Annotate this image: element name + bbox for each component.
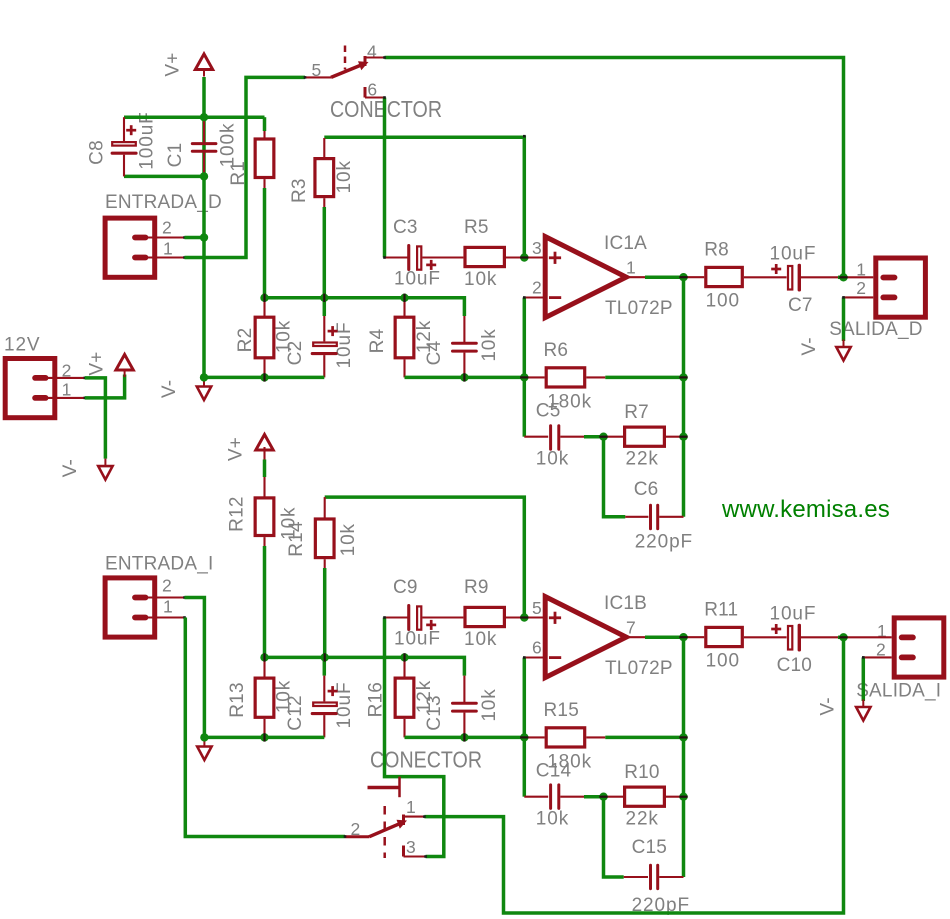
svg-text:R7: R7 — [624, 402, 649, 423]
svg-text:10uF: 10uF — [770, 244, 817, 265]
svg-text:6: 6 — [532, 638, 542, 658]
svg-text:2: 2 — [532, 278, 542, 298]
svg-text:R6: R6 — [544, 340, 569, 361]
svg-text:100: 100 — [706, 651, 740, 672]
svg-text:C2: C2 — [285, 341, 306, 366]
svg-text:R9: R9 — [464, 577, 489, 598]
svg-text:V+: V+ — [87, 351, 108, 375]
svg-text:V-: V- — [159, 380, 180, 398]
svg-text:100uF: 100uF — [137, 111, 158, 169]
svg-text:C12: C12 — [285, 695, 306, 730]
svg-text:R11: R11 — [704, 600, 738, 621]
svg-text:C6: C6 — [634, 479, 659, 500]
svg-text:10uF: 10uF — [770, 604, 817, 625]
svg-text:10k: 10k — [536, 449, 569, 470]
svg-text:C5: C5 — [536, 401, 561, 422]
svg-text:C3: C3 — [393, 217, 418, 238]
svg-text:1: 1 — [406, 797, 416, 817]
svg-text:C4: C4 — [424, 340, 445, 365]
svg-text:C1: C1 — [165, 143, 186, 168]
svg-text:V-: V- — [799, 337, 820, 355]
svg-text:22k: 22k — [626, 809, 659, 830]
svg-text:C15: C15 — [632, 837, 667, 858]
svg-text:10k: 10k — [464, 269, 497, 290]
svg-text:2: 2 — [856, 278, 866, 298]
svg-text:R15: R15 — [544, 700, 579, 721]
svg-text:V+: V+ — [226, 437, 247, 461]
svg-text:7: 7 — [626, 618, 636, 638]
svg-text:R8: R8 — [704, 240, 729, 261]
svg-text:R14: R14 — [286, 521, 307, 557]
svg-text:3: 3 — [532, 238, 542, 258]
svg-text:100k: 100k — [218, 123, 239, 168]
svg-text:10uF: 10uF — [394, 269, 441, 290]
svg-text:100: 100 — [706, 291, 740, 312]
svg-text:220pF: 220pF — [635, 531, 693, 552]
svg-text:10k: 10k — [536, 809, 569, 830]
svg-text:SALIDA_I: SALIDA_I — [856, 681, 941, 702]
svg-text:C10: C10 — [777, 655, 812, 676]
svg-text:R10: R10 — [624, 762, 659, 783]
svg-text:1: 1 — [62, 380, 72, 400]
svg-text:10k: 10k — [479, 688, 500, 721]
svg-text:C9: C9 — [393, 577, 418, 598]
svg-text:V-: V- — [817, 697, 838, 715]
svg-text:www.kemisa.es: www.kemisa.es — [721, 496, 890, 523]
svg-text:R2: R2 — [235, 328, 256, 353]
svg-text:10k: 10k — [464, 629, 497, 650]
svg-text:R5: R5 — [464, 217, 489, 238]
svg-text:R13: R13 — [227, 682, 248, 717]
svg-text:C7: C7 — [788, 295, 813, 316]
svg-text:10k: 10k — [479, 328, 500, 361]
svg-text:C14: C14 — [536, 761, 572, 782]
svg-text:C8: C8 — [87, 140, 108, 165]
svg-text:1: 1 — [626, 258, 636, 278]
svg-text:12V: 12V — [4, 335, 41, 356]
svg-text:10uF: 10uF — [394, 629, 441, 650]
svg-text:R3: R3 — [289, 178, 310, 203]
svg-text:2: 2 — [162, 218, 172, 238]
svg-text:2: 2 — [162, 576, 172, 596]
svg-text:10k: 10k — [338, 523, 359, 556]
svg-text:IC1B: IC1B — [604, 593, 647, 614]
svg-text:R4: R4 — [367, 328, 388, 353]
svg-text:C13: C13 — [424, 695, 445, 730]
svg-text:22k: 22k — [626, 449, 659, 470]
svg-text:1: 1 — [163, 239, 173, 259]
svg-text:TL072P: TL072P — [605, 298, 673, 319]
svg-text:10k: 10k — [334, 160, 355, 193]
svg-text:V-: V- — [60, 459, 81, 477]
svg-text:R12: R12 — [227, 496, 248, 531]
svg-text:1: 1 — [163, 597, 173, 617]
svg-text:5: 5 — [532, 598, 542, 618]
svg-text:IC1A: IC1A — [604, 233, 647, 254]
svg-text:ENTRADA_I: ENTRADA_I — [105, 554, 213, 575]
svg-text:TL072P: TL072P — [605, 658, 673, 679]
svg-text:CONECTOR: CONECTOR — [370, 747, 482, 773]
svg-text:V+: V+ — [163, 52, 184, 76]
svg-text:3: 3 — [406, 837, 416, 857]
